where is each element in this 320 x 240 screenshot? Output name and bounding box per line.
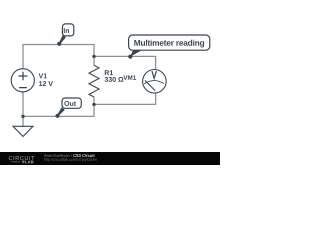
footer title bbox=[44, 154, 72, 158]
wire left branch upper bbox=[22, 44, 24, 69]
wire top rail bbox=[23, 44, 94, 46]
footer bar bbox=[0, 152, 220, 165]
resistor R1 bbox=[89, 65, 99, 97]
junction resistor bottom node bbox=[92, 103, 95, 106]
CircuitLab logo bbox=[9, 156, 35, 163]
flag Out bbox=[55, 98, 81, 118]
voltmeter VM1 bbox=[143, 70, 167, 94]
label VM1 bbox=[123, 75, 136, 79]
junction resistor top node bbox=[92, 55, 95, 58]
ground bbox=[13, 126, 33, 136]
wire middle branch lower bbox=[93, 97, 95, 117]
flag In bbox=[57, 24, 74, 46]
label V1 value bbox=[39, 73, 53, 86]
wire middle branch upper bbox=[93, 44, 95, 65]
wire ground stem bbox=[22, 116, 24, 126]
junction bottom-left node bbox=[21, 115, 24, 118]
wire voltmeter bottom bbox=[94, 93, 156, 104]
wire left branch lower bbox=[22, 92, 24, 117]
label R1 value bbox=[105, 70, 124, 82]
footer url bbox=[44, 158, 97, 161]
annotation Multimeter reading bbox=[128, 35, 210, 59]
wire voltmeter top bbox=[94, 56, 156, 69]
voltage source V1 bbox=[11, 69, 34, 92]
wire bottom rail bbox=[23, 115, 94, 117]
